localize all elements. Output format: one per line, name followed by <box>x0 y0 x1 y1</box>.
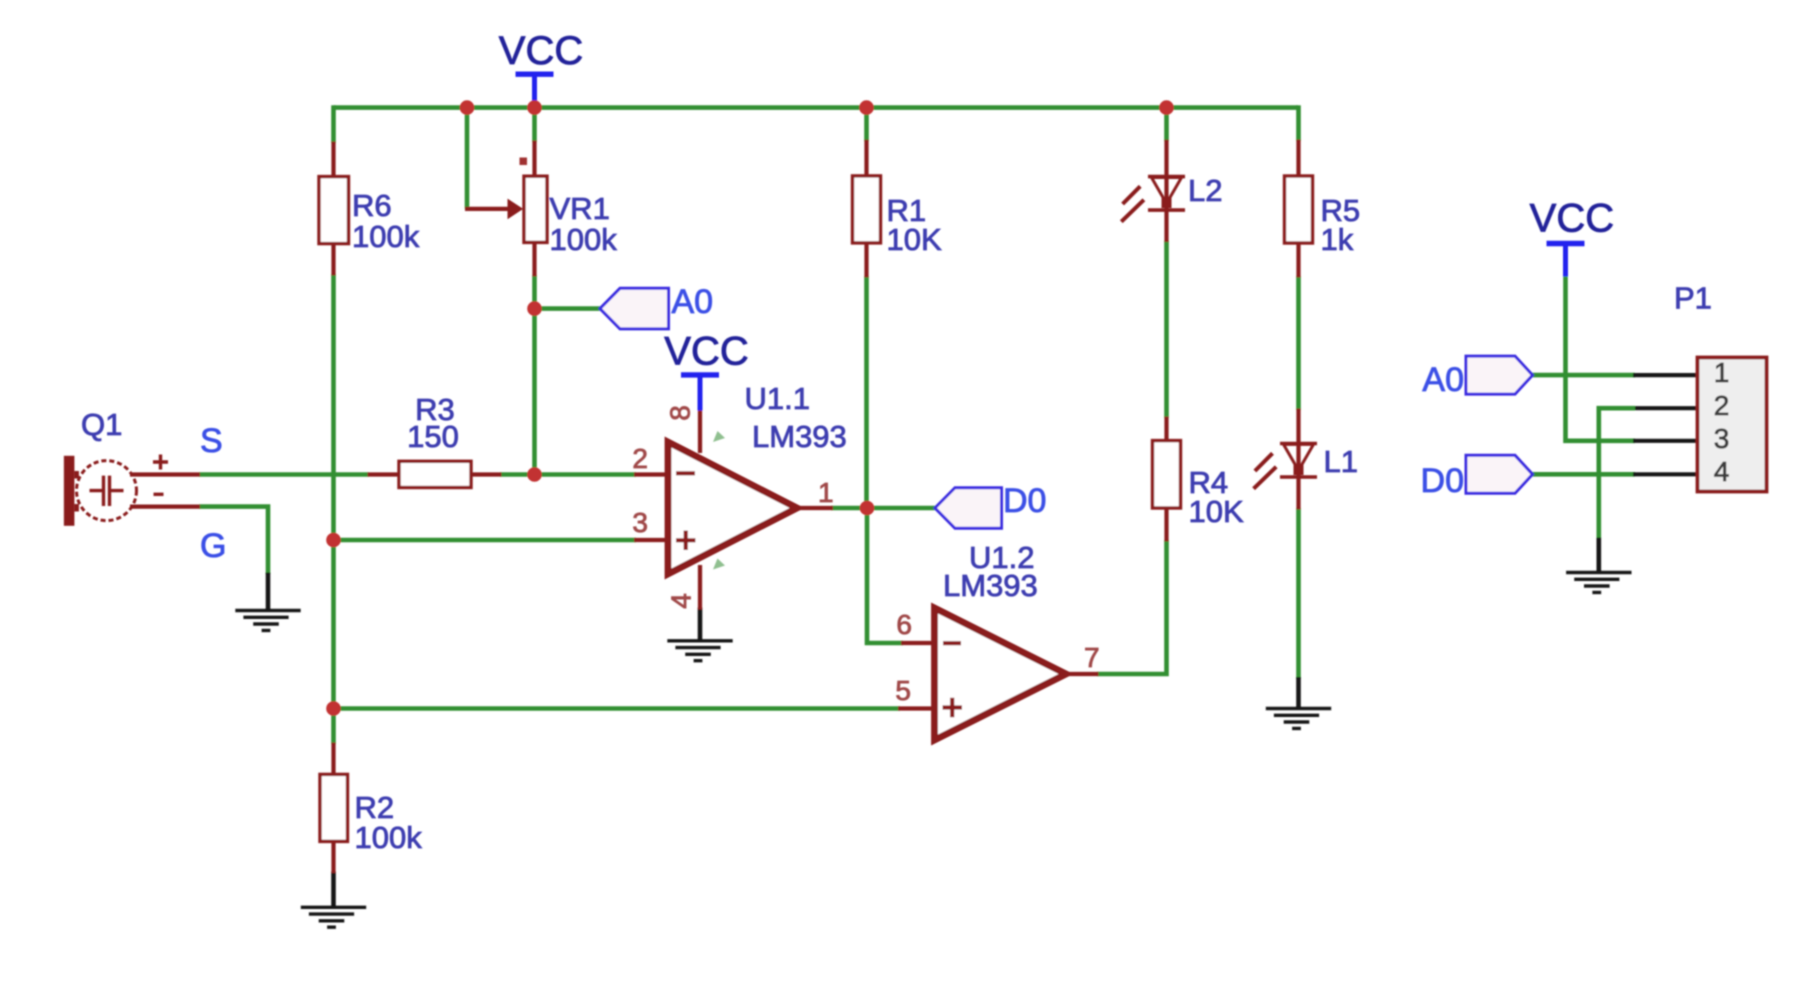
svg-text:10K: 10K <box>887 222 942 257</box>
microphone Q1 minus mark <box>154 493 164 496</box>
svg-text:VCC: VCC <box>664 330 748 374</box>
op-amp U1.2 triangle <box>935 608 1067 740</box>
potentiometer VR1 body <box>524 176 547 242</box>
svg-text:1: 1 <box>1714 357 1730 388</box>
wire R5 column top <box>1296 105 1301 141</box>
wire U1.1 pin4 ground lead (black) <box>698 608 703 642</box>
connector P1 body <box>1698 358 1767 492</box>
wire R1 bottom to D0 node <box>864 276 869 508</box>
svg-text:VCC: VCC <box>1530 197 1614 241</box>
wire A0 stub <box>535 306 602 311</box>
op-amp U1.1 minus input mark <box>676 471 695 475</box>
svg-text:100k: 100k <box>352 219 420 254</box>
svg-text:10K: 10K <box>1189 494 1244 529</box>
resistor R4 leads <box>1164 417 1168 542</box>
wire S net: R3 to U1.1 pin2 <box>500 472 636 477</box>
svg-text:VCC: VCC <box>499 29 583 73</box>
wire VCC3 stem to P1 pin3 <box>1566 275 1636 441</box>
wire VR1 wiper loop vertical <box>465 105 470 209</box>
microphone Q1 capacitor plates <box>104 476 110 506</box>
wire R5 to L1 <box>1296 276 1301 410</box>
svg-text:8: 8 <box>664 405 695 421</box>
junction VCC rail / L2 top <box>1159 100 1174 115</box>
microphone Q1 plus mark <box>153 455 168 470</box>
junction VCC rail / VR1 top <box>527 100 542 115</box>
wire L1 ground lead (black) <box>1296 677 1301 709</box>
svg-text:A0: A0 <box>672 283 714 321</box>
LED L2 anode bar <box>1148 175 1185 179</box>
wire VR1 bottom to R3 node (through A0 node) <box>532 275 537 477</box>
LED L2 light arrows <box>1121 186 1144 221</box>
LED L2 cathode bar <box>1148 208 1185 212</box>
svg-text:D0: D0 <box>1421 462 1464 500</box>
potentiometer VR1 leads <box>532 141 536 277</box>
wire G net ground lead (black) <box>266 573 271 612</box>
svg-text:Q1: Q1 <box>81 407 122 442</box>
svg-text:3: 3 <box>1714 423 1730 454</box>
resistor R3 body <box>399 461 471 487</box>
net flag D0 (left, at U1.1 output) <box>935 488 1002 529</box>
junction VCC rail / R1 top <box>859 100 874 115</box>
wire P1 pin2 black stub <box>1633 406 1698 410</box>
op-amp U1.1 direction mark top <box>713 431 725 442</box>
svg-text:3: 3 <box>632 507 648 538</box>
junction node A0 <box>527 301 542 316</box>
svg-text:L2: L2 <box>1188 173 1222 208</box>
wire R6 to R2 column (through pin3 and pin5 nodes) <box>331 274 336 744</box>
net flag A0 (left, at VR1 wiper node) <box>600 288 669 329</box>
svg-text:LM393: LM393 <box>752 419 847 454</box>
ground (R2 bottom) <box>301 907 366 927</box>
microphone Q1 circle <box>77 461 137 521</box>
potentiometer VR1 wiper arrow <box>465 207 510 211</box>
power VCC symbol (P1) <box>1547 244 1585 277</box>
resistor R3 leads <box>368 472 502 476</box>
potentiometer VR1 pin1 dot <box>520 158 528 166</box>
op-amp U1.2 plus input mark <box>943 698 963 718</box>
net flag A0 (right, at P1 pin1) <box>1466 356 1533 394</box>
resistor R5 leads <box>1296 140 1300 278</box>
svg-text:U1.1: U1.1 <box>745 381 810 416</box>
LED L1 cathode bar <box>1280 475 1317 479</box>
net flag D0 (right, at P1 pin4) <box>1466 455 1533 493</box>
LED L1 anode bar <box>1280 442 1317 446</box>
resistor R1 body <box>853 176 881 243</box>
resistor R6 body <box>319 177 349 244</box>
op-amp U1.1 pin1 stub <box>794 506 833 510</box>
op-amp U1.2 pin7 stub <box>1063 672 1099 676</box>
svg-text:2: 2 <box>1714 390 1730 421</box>
LED L1 triangle <box>1284 444 1314 470</box>
op-amp U1.2 pin5 stub <box>898 706 936 710</box>
wire P1 pin4 black stub <box>1633 472 1698 476</box>
resistor R2 body <box>320 774 348 841</box>
svg-text:1k: 1k <box>1321 222 1354 257</box>
op-amp U1.1 pin3 stub <box>634 538 669 542</box>
wire pin5 row <box>334 706 901 711</box>
wire D0 flag to P1 pin4 <box>1532 472 1635 477</box>
LED L2 triangle <box>1152 178 1182 204</box>
svg-text:150: 150 <box>407 419 459 454</box>
power VCC symbol (top rail) <box>516 74 554 106</box>
svg-text:6: 6 <box>896 609 912 640</box>
wire P1 pin2 to ground corner <box>1599 408 1635 539</box>
microphone Q1 bar nubs <box>74 471 79 479</box>
svg-text:5: 5 <box>895 675 911 706</box>
op-amp U1.1 pin2 stub <box>634 472 669 476</box>
junction VR1 bottom / S net <box>527 467 542 482</box>
svg-text:S: S <box>200 422 223 460</box>
ground (mic G net) <box>235 611 300 631</box>
svg-text:VR1: VR1 <box>550 191 610 226</box>
svg-text:P1: P1 <box>1674 281 1712 316</box>
svg-text:LM393: LM393 <box>943 568 1038 603</box>
wire pin3 row <box>334 538 637 543</box>
svg-text:A0: A0 <box>1422 361 1464 399</box>
svg-text:2: 2 <box>632 443 648 474</box>
junction node D0 <box>860 501 875 516</box>
svg-text:100k: 100k <box>550 222 618 257</box>
op-amp U1.1 triangle <box>668 442 797 574</box>
junction VCC rail / VR1 wiper <box>460 100 475 115</box>
op-amp U1.1 plus input mark <box>676 531 696 551</box>
resistor R1 leads <box>864 140 868 278</box>
LED L1 apex dot <box>1294 465 1304 475</box>
svg-text:L1: L1 <box>1324 444 1358 479</box>
wire P1 ground lead (black) <box>1597 538 1602 573</box>
junction R2 top / pin5 wire <box>326 701 341 716</box>
svg-text:4: 4 <box>665 593 696 609</box>
LED L1 light arrows <box>1254 453 1277 488</box>
wire VR1 column top <box>532 105 537 142</box>
op-amp U1.2 minus input mark <box>943 641 961 645</box>
wire A0 flag to P1 pin1 <box>1532 373 1635 378</box>
svg-text:R6: R6 <box>352 188 392 223</box>
svg-text:7: 7 <box>1084 642 1100 673</box>
wire L1 to ground (green part) <box>1296 508 1301 679</box>
wire P1 pin1 black stub <box>1633 373 1698 377</box>
microphone Q1 capacitor leads <box>90 489 124 492</box>
svg-text:1: 1 <box>818 477 834 508</box>
LED L2 leads <box>1164 140 1168 242</box>
resistor R2 leads <box>331 743 335 874</box>
resistor R6 leads <box>331 142 335 276</box>
wire S net: mic to R3 <box>199 472 369 477</box>
wire D0 node down to pin6 <box>865 508 903 643</box>
ground (L1 cathode) <box>1266 709 1331 729</box>
resistor R5 body <box>1285 176 1313 243</box>
op-amp U1.1 direction mark bottom <box>713 559 725 570</box>
microphone Q1 bottom lead <box>130 505 200 509</box>
svg-text:4: 4 <box>1714 456 1730 487</box>
wire R6 column top <box>331 105 336 143</box>
connector P1 pin numbers <box>1714 357 1730 487</box>
op-amp U1.1 pin4 stub <box>698 565 702 610</box>
wire U1.2 pin7 output to R4 column <box>1097 540 1167 676</box>
microphone Q1 body bar <box>64 456 75 526</box>
power VCC symbol (U1.1 pin8) <box>681 375 719 411</box>
LED L2 apex dot <box>1162 198 1172 208</box>
wire L2 column top <box>1164 105 1169 141</box>
wire L2 to R4 <box>1164 241 1169 418</box>
svg-text:100k: 100k <box>355 820 423 855</box>
junction R6 column / pin3 wire <box>326 533 341 548</box>
ground (U1.1 pin4) <box>667 641 732 661</box>
wire G net: mic to ground corner <box>199 507 268 574</box>
wire R1 column top <box>864 105 869 141</box>
wire R2 ground lead (black) <box>331 872 336 908</box>
wire VCC top rail <box>334 105 1299 110</box>
ground (P1 pin2) <box>1566 573 1631 593</box>
wire P1 pin3 black stub <box>1633 439 1698 443</box>
op-amp U1.2 pin6 stub <box>901 641 936 645</box>
resistor R4 body <box>1153 441 1181 508</box>
op-amp U1.1 pin8 stub <box>698 409 702 454</box>
wire U1.1 output to D0 node <box>831 506 936 511</box>
microphone Q1 top lead <box>130 472 200 476</box>
LED L1 leads <box>1296 409 1300 510</box>
svg-text:G: G <box>200 527 226 565</box>
svg-text:D0: D0 <box>1003 482 1046 520</box>
